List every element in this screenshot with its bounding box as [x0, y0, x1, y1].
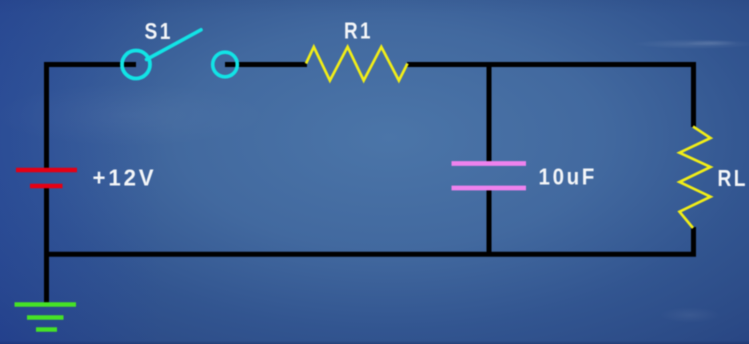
wire resistor R1 to node A	[407, 62, 489, 67]
label S1	[145, 18, 174, 44]
switch S1 left contact circle	[122, 51, 150, 79]
label RL	[718, 165, 749, 191]
switch S1 lever arm	[147, 30, 202, 60]
battery B1 positive plate	[16, 168, 77, 173]
wire battery positive to switch S1 left terminal	[47, 65, 137, 169]
ground bar 1	[15, 302, 77, 306]
wire node A down to capacitor C1 top plate	[487, 65, 492, 163]
resistor R1 zigzag	[306, 47, 408, 81]
wire switch S1 right terminal to resistor R1	[225, 62, 307, 67]
capacitor C1 top plate	[452, 161, 527, 166]
svg-text:R1: R1	[344, 18, 373, 44]
label +12V	[93, 164, 157, 190]
label 10uF	[539, 164, 598, 190]
svg-text:S1: S1	[145, 18, 174, 44]
svg-text:10uF: 10uF	[539, 164, 598, 190]
svg-text:RL: RL	[718, 165, 749, 191]
battery B1 negative plate	[30, 184, 63, 189]
ground bar 2	[27, 315, 64, 319]
wire battery negative to bottom bus and ground stem	[44, 188, 49, 304]
label R1	[344, 18, 373, 44]
capacitor C1 bottom plate	[452, 186, 527, 191]
svg-text:+12V: +12V	[93, 164, 157, 190]
wire bottom bus	[44, 252, 696, 257]
wire node A to top-right corner down to RL top	[489, 65, 694, 128]
ground bar 3	[36, 327, 57, 331]
resistor RL zigzag	[680, 127, 711, 229]
switch S1 right contact circle	[213, 52, 238, 77]
wire RL bottom to bottom bus	[691, 227, 696, 257]
wire capacitor C1 bottom plate to bottom bus	[487, 190, 492, 257]
